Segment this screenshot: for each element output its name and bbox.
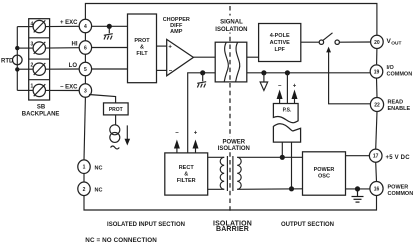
svg-text:16: 16 bbox=[374, 187, 380, 193]
svg-text:AMP: AMP bbox=[170, 29, 183, 35]
svg-text:+: + bbox=[194, 131, 198, 137]
svg-text:ISOLATION: ISOLATION bbox=[215, 27, 247, 33]
svg-text:6: 6 bbox=[84, 46, 87, 52]
svg-text:20: 20 bbox=[374, 40, 380, 46]
svg-text:PROT: PROT bbox=[134, 38, 150, 44]
svg-text:NC: NC bbox=[95, 187, 103, 193]
svg-text:4: 4 bbox=[84, 24, 87, 30]
svg-text:+: + bbox=[293, 84, 297, 90]
svg-text:ISOLATED INPUT SECTION: ISOLATED INPUT SECTION bbox=[107, 222, 185, 228]
svg-text:POWER: POWER bbox=[222, 140, 245, 146]
svg-text:5: 5 bbox=[84, 67, 87, 73]
svg-text:ENABLE: ENABLE bbox=[388, 106, 411, 112]
svg-text:BACKPLANE: BACKPLANE bbox=[22, 112, 60, 118]
svg-text:+5 V DC: +5 V DC bbox=[386, 155, 411, 161]
svg-text:SB: SB bbox=[37, 105, 46, 111]
svg-text:1: 1 bbox=[31, 84, 34, 90]
svg-text:BARRIER: BARRIER bbox=[216, 226, 249, 233]
svg-text:17: 17 bbox=[373, 154, 379, 160]
svg-text:READ: READ bbox=[388, 100, 404, 106]
svg-text:POWER: POWER bbox=[388, 184, 409, 190]
svg-text:&: & bbox=[184, 172, 188, 178]
svg-text:I/O: I/O bbox=[387, 65, 395, 71]
svg-text:4-POLE: 4-POLE bbox=[270, 33, 290, 39]
svg-text:−: − bbox=[278, 84, 282, 90]
svg-text:− EXC: − EXC bbox=[60, 84, 78, 90]
svg-text:1: 1 bbox=[83, 165, 86, 171]
svg-text:OUTPUT SECTION: OUTPUT SECTION bbox=[281, 222, 334, 228]
svg-text:POWER: POWER bbox=[314, 167, 335, 173]
svg-text:2: 2 bbox=[83, 187, 86, 193]
svg-text:COMMON: COMMON bbox=[387, 71, 413, 77]
svg-text:22: 22 bbox=[374, 103, 380, 109]
svg-text:SIGNAL: SIGNAL bbox=[220, 20, 243, 26]
svg-text:LO: LO bbox=[69, 63, 78, 69]
svg-text:3: 3 bbox=[84, 89, 87, 95]
svg-text:+ EXC: + EXC bbox=[60, 20, 78, 26]
svg-text:PROT: PROT bbox=[109, 107, 123, 113]
svg-text:RTD: RTD bbox=[1, 58, 14, 64]
svg-text:OUT: OUT bbox=[391, 40, 401, 46]
svg-text:−: − bbox=[169, 69, 173, 75]
svg-text:RECT: RECT bbox=[179, 165, 195, 171]
svg-text:4: 4 bbox=[31, 22, 34, 28]
svg-text:LPF: LPF bbox=[275, 47, 286, 53]
svg-text:OSC: OSC bbox=[318, 174, 330, 180]
svg-text:&: & bbox=[140, 45, 144, 51]
svg-text:NC: NC bbox=[95, 165, 103, 171]
svg-text:ISOLATION: ISOLATION bbox=[218, 146, 250, 152]
svg-text:P.S.: P.S. bbox=[283, 108, 292, 114]
svg-text:FILT: FILT bbox=[136, 51, 148, 57]
svg-text:19: 19 bbox=[374, 70, 380, 76]
svg-text:3: 3 bbox=[31, 42, 34, 48]
svg-text:COMMON: COMMON bbox=[388, 191, 414, 197]
svg-text:2: 2 bbox=[31, 63, 34, 69]
svg-text:HI: HI bbox=[72, 41, 78, 47]
svg-text:+: + bbox=[168, 44, 172, 50]
svg-text:−: − bbox=[175, 131, 179, 137]
svg-text:NC = NO CONNECTION: NC = NO CONNECTION bbox=[85, 237, 157, 244]
svg-text:ACTIVE: ACTIVE bbox=[270, 40, 291, 46]
svg-text:FILTER: FILTER bbox=[177, 178, 196, 184]
